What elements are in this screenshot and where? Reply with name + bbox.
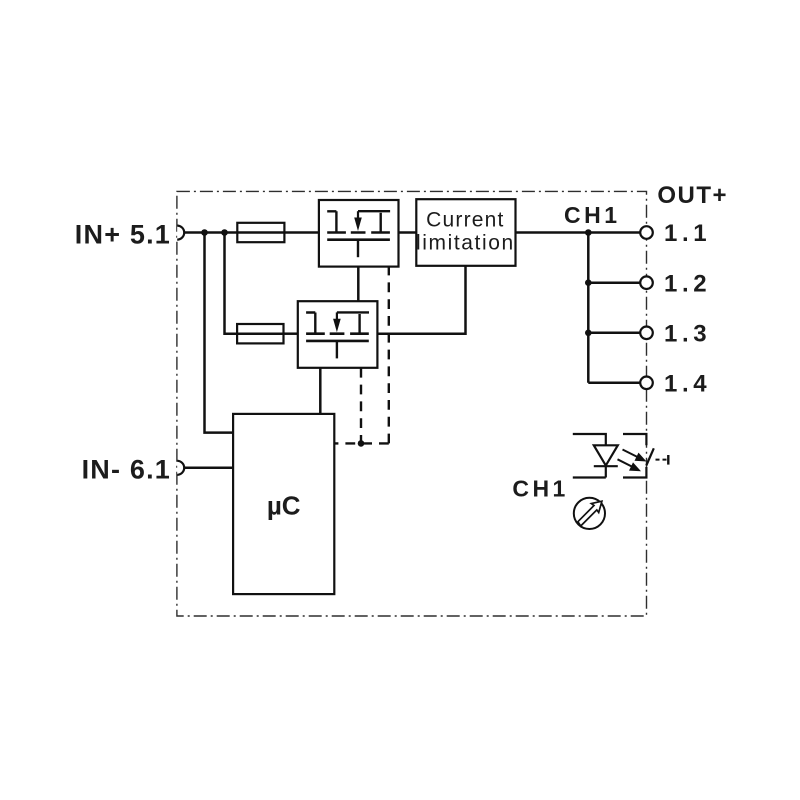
wire bus to terminal 1.4 [588, 382, 640, 385]
svg-text:1.4: 1.4 [664, 371, 711, 398]
svg-text:OUT+: OUT+ [657, 182, 728, 209]
device enclosure border (dash-dot frame) [177, 191, 647, 616]
microcontroller U1 [233, 414, 334, 594]
svg-text:1.3: 1.3 [664, 321, 711, 348]
fuse F2 [237, 324, 283, 343]
junction on dashed control net [358, 440, 365, 447]
wire fuse F1 to transistor Q1 [284, 231, 319, 234]
LED cathode bar [594, 465, 618, 467]
junction bus to 1.3 [585, 330, 592, 337]
wire output bus vertical [587, 233, 590, 383]
wire node CH1 to terminal 1.1 [588, 231, 640, 234]
junction node A [201, 229, 208, 236]
light ray arrow 2 [618, 459, 633, 466]
wire Q1 bottom to Q2 top [357, 267, 360, 302]
terminal IN+ 5.1 (semicircle on border) [177, 226, 184, 240]
wire Q2 to current limitation block bottom [377, 266, 465, 334]
switch contact bottom lead [623, 467, 646, 478]
svg-text:1.2: 1.2 [664, 270, 711, 297]
terminal 1.2 [640, 276, 653, 289]
dashed control wire horizontal to microcontroller [334, 442, 389, 444]
junction node B [221, 229, 228, 236]
wire fuse F2 to transistor Q2 [284, 332, 298, 335]
transistor Q2 (MOSFET, lower) [298, 301, 378, 368]
wire Q2 bottom to microcontroller top [319, 368, 322, 414]
svg-text:µC: µC [267, 490, 301, 520]
wire IN+ to fuse F1 [184, 231, 237, 234]
svg-text:Current: Current [426, 208, 504, 231]
terminal IN- 6.1 (semicircle on border) [177, 461, 184, 475]
potentiometer adjust R1 (circle with arrow) [574, 498, 605, 529]
mechanical link dashes [656, 459, 667, 461]
svg-text:IN+ 5.1: IN+ 5.1 [75, 220, 171, 250]
node CH1 junction [585, 229, 592, 236]
LED cathode lead [573, 466, 606, 477]
svg-text:CH1: CH1 [512, 476, 569, 502]
wire current limitation to node CH1 [516, 231, 589, 234]
svg-text:CH1: CH1 [564, 202, 621, 228]
current limitation block U2 [416, 199, 516, 266]
wire node B down to fuse F2 [225, 233, 238, 334]
junction bus to 1.2 [585, 279, 592, 286]
svg-text:IN- 6.1: IN- 6.1 [82, 455, 171, 485]
wire bus to terminal 1.3 [588, 332, 640, 335]
dashed control wire from Q2 gate down [360, 368, 362, 444]
dashed control wire from Q1 gate down [388, 267, 390, 444]
LED anode lead [573, 434, 606, 445]
switch contact blade [646, 448, 654, 465]
wire node A to microcontroller [205, 233, 234, 433]
light ray arrow 1 [623, 450, 638, 458]
terminal 1.3 [640, 327, 653, 340]
terminal 1.4 [640, 377, 653, 390]
LED D1 indicator with photo-switch [573, 434, 669, 478]
terminal 1.1 [640, 226, 653, 239]
fuse F1 [237, 223, 284, 242]
mechanical link end tick [667, 455, 669, 465]
wire bus to terminal 1.2 [588, 281, 640, 284]
transistor Q1 (MOSFET, upper) [319, 200, 399, 267]
svg-text:1.1: 1.1 [664, 220, 711, 247]
LED D1 triangle [594, 445, 618, 465]
wire IN- to microcontroller [184, 467, 233, 470]
wire Q1 to current limitation block [399, 231, 417, 234]
svg-text:limitation: limitation [416, 232, 515, 255]
switch contact top lead [623, 434, 646, 445]
